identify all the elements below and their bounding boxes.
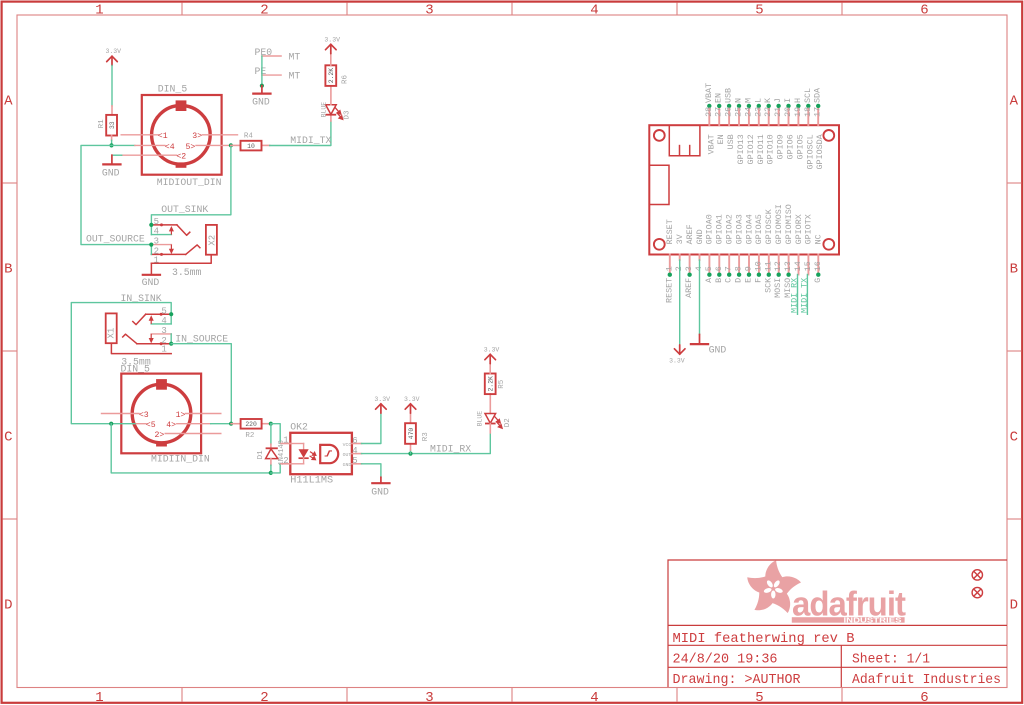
wire R2 junction to OK2 pin1: [271, 424, 281, 444]
logo: industries banner: [792, 617, 905, 623]
svg-text:2: 2: [260, 690, 268, 705]
wire MIDIIN pin5 to IN_SINK junction: [111, 423, 135, 425]
resistor R1: [106, 115, 117, 136]
svg-text:GND: GND: [709, 344, 727, 355]
svg-text:RESET: RESET: [664, 278, 674, 303]
svg-text:GPIOA3: GPIOA3: [734, 214, 744, 244]
svg-text:1: 1: [154, 255, 159, 265]
resistor R2 stubs: [231, 423, 241, 425]
connector X2 3.5mm jack body: [206, 225, 217, 255]
svg-text:4: 4: [352, 446, 357, 456]
Feather pin 20 (I): [788, 106, 790, 125]
wire junction to DIN MIDIOUT pin4: [112, 144, 135, 146]
MIDIOUT pin 4 stub: [135, 144, 165, 146]
svg-text:1: 1: [283, 436, 288, 446]
svg-text:16: 16: [813, 261, 823, 271]
svg-text:5>: 5>: [186, 143, 196, 152]
Feather pin 28 (VBAT): [708, 106, 710, 125]
wire X1 pin5 to pin4 (teal): [170, 314, 172, 324]
svg-text:<4: <4: [165, 143, 175, 152]
svg-text:<1: <1: [158, 132, 168, 141]
svg-text:10: 10: [753, 261, 763, 271]
wire 3.3V to R1: [111, 66, 113, 106]
svg-text:VBAT: VBAT: [704, 83, 714, 103]
MIDIOUT pin 2 stub: [122, 154, 177, 156]
resistor R6 stub: [330, 86, 332, 105]
svg-text:15: 15: [803, 261, 813, 271]
svg-text:MIDI featherwing rev B: MIDI featherwing rev B: [673, 631, 855, 647]
svg-text:<2: <2: [176, 153, 186, 162]
svg-text:L: L: [753, 98, 763, 103]
svg-text:GPIOSCL: GPIOSCL: [805, 134, 815, 169]
X1 pin 5 (tip contact): [146, 313, 172, 315]
resistor R3: [405, 423, 416, 444]
resistor R5: [485, 374, 496, 395]
OK2 pin 6 (VCC): [352, 443, 362, 445]
OK2 pin 2 stub: [281, 463, 290, 465]
svg-text:GPIO12: GPIO12: [746, 134, 756, 164]
svg-text:GPIOMOSI: GPIOMOSI: [774, 204, 784, 244]
wire PE0/PE to GND: [261, 56, 263, 86]
Feather pin 24 (M): [748, 106, 750, 125]
svg-text:PE: PE: [255, 66, 267, 77]
Feather pin 26 (USB): [728, 106, 730, 125]
MIDIIN pin 3 stub: [102, 413, 139, 415]
OK2 internal LED: [290, 443, 303, 445]
Feather pin 27 (EN): [718, 106, 720, 125]
svg-text:5: 5: [704, 266, 714, 271]
wire X1 pin3 to pin2 (teal): [170, 334, 172, 344]
Feather USB connector: [669, 125, 700, 156]
svg-text:6: 6: [920, 3, 928, 19]
svg-text:GPIO6: GPIO6: [786, 134, 796, 159]
svg-text:GND: GND: [695, 229, 705, 244]
svg-text:470: 470: [408, 428, 415, 440]
svg-text:1: 1: [95, 690, 103, 705]
svg-text:DIN_5: DIN_5: [158, 84, 188, 95]
svg-text:5: 5: [161, 306, 166, 316]
svg-text:VBAT: VBAT: [706, 134, 716, 154]
svg-text:OUT: OUT: [343, 452, 352, 458]
connector X1 3.5mm jack body: [106, 313, 117, 343]
svg-text:<3: <3: [139, 411, 149, 420]
svg-text:2.2K: 2.2K: [328, 68, 335, 84]
X2 pin 3: [151, 244, 171, 246]
OK2 pin 1 stub: [281, 443, 290, 445]
svg-text:SCL: SCL: [803, 88, 813, 103]
svg-text:GPIOA2: GPIOA2: [725, 214, 735, 244]
Feather pin 23 (L): [758, 106, 760, 125]
svg-text:3.3V: 3.3V: [324, 36, 340, 43]
MIDIOUT pin 1 stub: [121, 134, 158, 136]
Feather mounting holes: [654, 130, 665, 141]
svg-text:3.3V: 3.3V: [374, 396, 390, 403]
svg-text:3: 3: [684, 266, 694, 271]
svg-text:5: 5: [352, 456, 357, 466]
svg-text:GND: GND: [371, 487, 389, 498]
wire MIDI_TX net: [270, 121, 331, 146]
svg-text:MIDI_RX: MIDI_RX: [790, 278, 800, 313]
svg-text:D3: D3: [343, 110, 351, 120]
X1 pin 2 (switch lever): [137, 343, 171, 345]
svg-text:R3: R3: [422, 432, 430, 442]
svg-text:I: I: [783, 98, 793, 103]
svg-text:5: 5: [154, 217, 159, 227]
svg-text:25: 25: [734, 107, 744, 117]
svg-text:C: C: [4, 430, 12, 446]
svg-text:3.5mm: 3.5mm: [172, 267, 202, 278]
svg-text:GND: GND: [252, 96, 270, 107]
logo: adafruit flower: [744, 560, 803, 617]
svg-text:J: J: [773, 98, 783, 103]
svg-text:GPIOA1: GPIOA1: [715, 214, 725, 244]
wire Feather 3V pin to 3.3V supply: [679, 260, 681, 345]
svg-text:19: 19: [793, 107, 803, 117]
resistor R6: [325, 65, 336, 86]
wire junction to OUT_SINK: [151, 145, 231, 225]
svg-text:26: 26: [724, 107, 734, 117]
wire DIN pin2 to GND: [112, 154, 122, 156]
svg-text:17: 17: [813, 107, 823, 117]
X1 pin 1: [111, 343, 171, 353]
svg-text:GPIO9: GPIO9: [776, 134, 786, 159]
svg-text:G: G: [813, 278, 823, 283]
optocoupler OK2 H11L1MS body: [290, 433, 352, 474]
svg-text:GPIO11: GPIO11: [756, 134, 766, 164]
junction MIDIIN pin5: [109, 422, 113, 426]
ground (PE): [261, 86, 263, 94]
svg-text:3.3V: 3.3V: [105, 48, 121, 55]
svg-text:<5: <5: [146, 421, 156, 430]
svg-text:C: C: [724, 278, 734, 283]
wire MIDIIN pin4 to R2: [211, 423, 231, 425]
svg-text:EN: EN: [714, 93, 724, 103]
X1 pin 4: [151, 323, 171, 325]
svg-text:EN: EN: [716, 134, 726, 144]
junction R2/D1 anode: [269, 422, 273, 426]
svg-text:E: E: [744, 278, 754, 283]
svg-text:F: F: [753, 278, 763, 283]
svg-text:SCK: SCK: [763, 277, 773, 293]
svg-text:VCC: VCC: [343, 442, 352, 448]
wire Feather MIDI_TX pin: [806, 275, 808, 315]
wire D1 junction to OK2 pin2: [271, 464, 281, 473]
svg-text:M: M: [743, 98, 753, 103]
supply 3.3V (R3): [405, 404, 416, 413]
svg-text:R6: R6: [342, 74, 350, 84]
junction IN_SOURCE at X1 pin2: [169, 342, 173, 346]
svg-text:MIDI_TX: MIDI_TX: [290, 135, 331, 146]
svg-text:2>: 2>: [155, 431, 165, 440]
svg-text:SDA: SDA: [813, 87, 823, 103]
svg-text:B: B: [4, 262, 12, 278]
junction IN_SINK at X1 pin5: [169, 312, 173, 316]
svg-text:2.2K: 2.2K: [488, 376, 495, 392]
svg-text:27: 27: [714, 107, 724, 117]
svg-text:MT: MT: [289, 51, 301, 62]
svg-text:R4: R4: [244, 132, 254, 140]
OK2 pin 4 (OUT): [352, 453, 362, 455]
svg-text:6: 6: [714, 266, 724, 271]
MIDIIN pin 5 stub: [135, 423, 146, 425]
svg-text:GPIOTX: GPIOTX: [804, 214, 814, 244]
svg-text:PE0: PE0: [255, 47, 273, 58]
svg-text:24/8/20 19:36: 24/8/20 19:36: [673, 651, 778, 667]
svg-text:GND: GND: [142, 277, 160, 288]
svg-text:1: 1: [161, 345, 166, 355]
svg-text:D1: D1: [257, 450, 265, 460]
svg-text:USB: USB: [724, 88, 734, 103]
svg-text:R5: R5: [498, 379, 506, 389]
svg-text:1: 1: [664, 266, 674, 271]
wire MIDIIN junction down to D1/OK2 cathode rail: [111, 424, 271, 473]
Feather battery connector: [649, 165, 669, 204]
wire X2 pin3 to pin2 (teal): [150, 245, 152, 255]
svg-text:220: 220: [245, 421, 257, 428]
title block frame: [668, 560, 1007, 687]
X2 pin 4: [151, 234, 171, 236]
svg-text:USB: USB: [726, 134, 736, 149]
svg-text:3.3V: 3.3V: [484, 346, 500, 353]
supply 3.3V (above R1): [107, 56, 118, 65]
svg-text:22: 22: [763, 107, 773, 117]
svg-text:MIDIOUT_DIN: MIDIOUT_DIN: [157, 177, 222, 188]
svg-text:3>: 3>: [192, 132, 202, 141]
wire R1 to DIN pin 4: [111, 135, 113, 140]
resistor R2: [241, 419, 262, 429]
junction R4 left: [229, 143, 233, 147]
svg-text:13: 13: [783, 261, 793, 271]
svg-text:BLUE: BLUE: [477, 411, 484, 427]
X1 pin 3: [151, 333, 171, 335]
svg-text:MIDI_RX: MIDI_RX: [430, 443, 471, 454]
svg-text:B: B: [1010, 262, 1018, 278]
svg-text:Drawing: >AUTHOR: Drawing: >AUTHOR: [673, 672, 802, 688]
diode D1 1N4148: [270, 424, 272, 445]
svg-text:GND: GND: [102, 167, 120, 178]
svg-text:3: 3: [161, 326, 166, 336]
svg-text:12: 12: [773, 261, 783, 271]
svg-text:MOSI: MOSI: [773, 278, 783, 298]
svg-text:8: 8: [734, 266, 744, 271]
svg-text:5: 5: [755, 3, 763, 19]
svg-text:11: 11: [763, 261, 773, 271]
Feather pin 18 (SCL): [807, 106, 809, 125]
Feather pin 22 (K): [768, 106, 770, 125]
svg-text:4: 4: [154, 227, 159, 237]
Feather pin 17 (SDA): [817, 106, 819, 125]
svg-text:5: 5: [755, 690, 763, 705]
supply 3.3V (OK2 VCC): [376, 404, 387, 413]
svg-text:4: 4: [590, 3, 598, 19]
svg-text:3V: 3V: [675, 234, 685, 244]
svg-text:6: 6: [352, 436, 357, 446]
ground (Feather): [699, 335, 701, 345]
junction OUT_SOURCE at X2 pin3: [149, 243, 153, 247]
svg-text:33: 33: [109, 121, 116, 129]
svg-text:23: 23: [753, 107, 763, 117]
svg-text:D2: D2: [504, 418, 512, 427]
svg-text:1>: 1>: [176, 411, 186, 420]
svg-text:GPIO10: GPIO10: [766, 134, 776, 164]
svg-text:A: A: [1010, 94, 1019, 110]
svg-text:D: D: [1010, 598, 1018, 614]
svg-text:9: 9: [744, 266, 754, 271]
svg-text:GPIOSCK: GPIOSCK: [764, 208, 774, 244]
junction IN_SOURCE / R2: [229, 422, 233, 426]
svg-text:1: 1: [95, 3, 103, 19]
svg-text:MIDI_TX: MIDI_TX: [800, 278, 810, 313]
Feather pin 25 (N): [738, 106, 740, 125]
svg-text:2: 2: [260, 3, 268, 19]
svg-text:GPIOA4: GPIOA4: [744, 214, 754, 244]
junction OUT_SINK at X2 pin5: [149, 223, 153, 227]
svg-text:N: N: [734, 98, 744, 103]
svg-text:3: 3: [425, 3, 433, 19]
svg-text:14: 14: [793, 261, 803, 271]
ground (X2 pin1): [150, 263, 152, 275]
svg-text:X1: X1: [107, 328, 117, 339]
wire OK2 GND: [362, 464, 381, 478]
svg-text:B: B: [714, 278, 724, 283]
svg-text:3.3V: 3.3V: [404, 396, 420, 403]
wire Feather MIDI_RX pin: [797, 275, 799, 315]
svg-text:AREF: AREF: [684, 278, 694, 298]
svg-text:MT: MT: [289, 70, 301, 81]
wire OK2 VCC to 3.3V: [362, 413, 381, 443]
svg-text:GPIOSDA: GPIOSDA: [815, 133, 825, 169]
svg-text:X2: X2: [207, 235, 217, 246]
pin MT (PE): [262, 74, 281, 76]
svg-text:INDUSTRIES: INDUSTRIES: [844, 615, 902, 624]
svg-text:OUT_SINK: OUT_SINK: [161, 204, 208, 215]
svg-text:Adafruit Industries: Adafruit Industries: [852, 672, 1001, 688]
svg-text:NC: NC: [814, 234, 824, 244]
svg-text:3: 3: [154, 237, 159, 247]
svg-text:GPIORX: GPIORX: [794, 214, 804, 244]
resistor R4: [241, 141, 262, 151]
X2 pin 2 (switch lever): [151, 253, 185, 255]
svg-text:H: H: [793, 98, 803, 103]
junction PE: [260, 84, 264, 88]
connector MIDIIN_DIN (DIN_5) body: [121, 374, 201, 454]
svg-text:2: 2: [283, 456, 288, 466]
OK2 photon arrows: [310, 452, 316, 460]
svg-text:D: D: [4, 598, 12, 614]
junction D1 cathode rail: [269, 471, 273, 475]
svg-text:GND: GND: [343, 462, 352, 468]
svg-text:BLUE: BLUE: [320, 102, 327, 118]
Feather pin 19 (H): [797, 106, 799, 125]
supply 3.3V (R5): [489, 364, 491, 374]
svg-text:H11L1MS: H11L1MS: [290, 476, 333, 487]
svg-text:GPIO5: GPIO5: [795, 134, 805, 159]
OK2 detector (schmitt): [320, 445, 338, 463]
svg-text:4>: 4>: [166, 421, 176, 430]
svg-text:20: 20: [783, 107, 793, 117]
OK2 pin 5 (GND): [352, 463, 362, 465]
wire MIDI_RX net: [362, 433, 491, 454]
title block registration marks: [972, 570, 982, 580]
svg-text:IN_SOURCE: IN_SOURCE: [175, 334, 228, 345]
svg-text:Sheet: 1/1: Sheet: 1/1: [852, 651, 930, 667]
module Feather outline: [649, 125, 839, 254]
svg-text:4: 4: [590, 690, 598, 705]
svg-text:6: 6: [920, 690, 928, 705]
svg-text:GPIOMISO: GPIOMISO: [784, 204, 794, 244]
resistor R4 stubs: [231, 144, 241, 146]
pin MT (PE0): [262, 55, 281, 57]
connector MIDIOUT_DIN (DIN_5) body: [142, 95, 222, 175]
X2 pin 5 (tip contact): [151, 224, 177, 226]
svg-text:C: C: [1010, 430, 1018, 446]
wire OUT_SOURCE net: R1 junction to X2 pin3: [81, 145, 151, 244]
svg-text:24: 24: [743, 107, 753, 117]
supply 3.3V (above R6): [330, 53, 332, 65]
ground (OK2): [380, 477, 382, 483]
svg-text:GPIOA0: GPIOA0: [705, 214, 715, 244]
X2 pin 1: [151, 255, 211, 263]
wire Feather GND pin: [699, 260, 701, 335]
svg-text:18: 18: [803, 107, 813, 117]
junction R1/OUT_SOURCE: [109, 143, 113, 147]
wire IN_SOURCE net: X1 pin2 to MIDIIN pin4: [171, 344, 231, 424]
svg-text:GPIOA5: GPIOA5: [754, 214, 764, 244]
svg-text:OK2: OK2: [290, 421, 308, 432]
svg-text:3: 3: [425, 690, 433, 705]
svg-text:3.3V: 3.3V: [669, 357, 685, 364]
svg-text:10: 10: [247, 143, 255, 150]
svg-text:AREF: AREF: [685, 224, 695, 244]
svg-text:D: D: [734, 278, 744, 283]
junction MIDI_RX / R3: [408, 452, 412, 456]
wire X2 pin5 to pin4 (teal): [150, 225, 152, 235]
svg-text:R2: R2: [245, 432, 254, 440]
svg-text:7: 7: [724, 266, 734, 271]
svg-text:RESET: RESET: [665, 219, 675, 244]
svg-text:GPIO13: GPIO13: [736, 134, 746, 164]
svg-text:4: 4: [161, 316, 166, 326]
svg-text:21: 21: [773, 107, 783, 117]
ground (MIDIOUT DIN pin2): [111, 155, 113, 164]
svg-text:28: 28: [704, 107, 714, 117]
svg-text:MIDIIN_DIN: MIDIIN_DIN: [151, 453, 210, 464]
LED D2: [489, 394, 491, 413]
Feather pin 21 (J): [778, 106, 780, 125]
LED D3: [330, 115, 332, 121]
supply 3.3V (Feather, pointing down): [674, 345, 685, 354]
svg-text:OUT_SOURCE: OUT_SOURCE: [86, 234, 145, 245]
wire IN_SINK net: X1 pin5 to MIDIIN pin5: [71, 303, 171, 424]
svg-text:A: A: [4, 94, 13, 110]
resistor R3 stubs: [410, 450, 412, 454]
svg-text:R1: R1: [98, 119, 106, 129]
